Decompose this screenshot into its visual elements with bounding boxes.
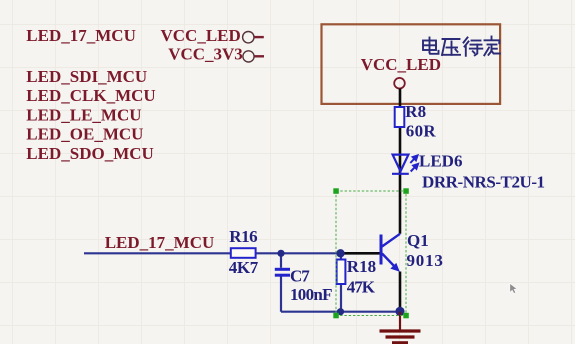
svg-text:R16: R16 (229, 227, 257, 246)
svg-text:LED_LE_MCU: LED_LE_MCU (26, 106, 141, 125)
svg-text:R18: R18 (347, 257, 376, 276)
svg-text:100nF: 100nF (290, 285, 332, 304)
svg-text:60R: 60R (406, 122, 437, 141)
svg-text:4K7: 4K7 (229, 258, 259, 277)
svg-text:9013: 9013 (407, 251, 444, 270)
svg-text:LED_17_MCU: LED_17_MCU (105, 233, 215, 252)
svg-text:VCC_LED: VCC_LED (361, 55, 441, 74)
svg-text:Q1: Q1 (407, 231, 429, 250)
svg-text:LED_SDI_MCU: LED_SDI_MCU (26, 67, 147, 86)
svg-text:47K: 47K (347, 278, 376, 297)
svg-text:R8: R8 (405, 102, 426, 121)
svg-text:C7: C7 (290, 266, 310, 285)
svg-text:VCC_LED: VCC_LED (161, 26, 241, 45)
svg-text:LED6: LED6 (419, 151, 462, 170)
svg-text:LED_SDO_MCU: LED_SDO_MCU (26, 144, 154, 163)
svg-text:LED_OE_MCU: LED_OE_MCU (26, 125, 143, 144)
svg-text:LED_CLK_MCU: LED_CLK_MCU (26, 86, 155, 105)
svg-text:DRR-NRS-T2U-1: DRR-NRS-T2U-1 (422, 173, 545, 192)
svg-text:LED_17_MCU: LED_17_MCU (26, 26, 136, 45)
svg-text:VCC_3V3: VCC_3V3 (168, 45, 243, 64)
